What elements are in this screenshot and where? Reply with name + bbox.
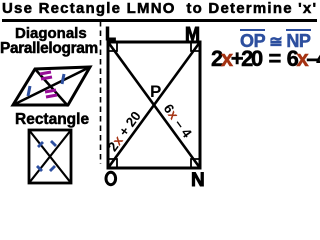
vertex label O [106, 172, 116, 184]
magenta double tick upper on diagonal TL-BR [40, 72, 52, 79]
label: Diagonals [15, 25, 87, 42]
label: Rectangle [15, 111, 89, 129]
blue tick upper-left half-diagonal [38, 142, 43, 147]
right angle marker at L [108, 42, 117, 51]
parallelogram sketch outline [13, 67, 90, 105]
equation: OP congruent NP (blue) [240, 31, 311, 52]
segment label 2x+20 [105, 109, 144, 155]
right angle marker at N [191, 159, 200, 168]
main rectangle LMNO [108, 42, 200, 168]
vertex label L [105, 24, 116, 44]
rectangle sketch outline [29, 130, 71, 183]
magenta double tick lower on diagonal TL-BR [45, 90, 57, 97]
blue tick lower-right half-diagonal [50, 166, 55, 171]
svg-text:P: P [150, 82, 161, 101]
diagonal L-N [108, 42, 200, 168]
title: Use Rectangle LMNO to Determine 'x' [2, 0, 317, 22]
svg-text:M: M [185, 24, 200, 44]
blue tick lower-left half-diagonal [37, 166, 42, 171]
vertex label M [185, 24, 200, 44]
svg-text:L: L [105, 24, 116, 44]
point label P [150, 82, 161, 101]
blue tick upper-right half-diagonal [51, 141, 56, 146]
dashed divider line [100, 21, 102, 164]
blue tick right on diagonal BL-TR [62, 74, 64, 84]
rectangle sketch diagonal BL-TR [29, 130, 71, 183]
parallelogram diagonal TL-BR [35, 69, 68, 106]
parallelogram diagonal BL-TR [13, 67, 90, 105]
svg-text:N: N [191, 170, 205, 190]
rectangle sketch diagonal TL-BR [29, 130, 71, 183]
label: Parallelogram [0, 40, 98, 58]
vertex label N [191, 170, 205, 191]
equation: 2x+20 = 6x-4 [211, 46, 320, 72]
segment label 6x-4 [161, 101, 195, 141]
diagonal M-O [108, 42, 200, 168]
right angle marker at O [108, 159, 117, 168]
blue tick left on diagonal BL-TR [28, 86, 30, 96]
right angle marker at M [191, 42, 200, 51]
